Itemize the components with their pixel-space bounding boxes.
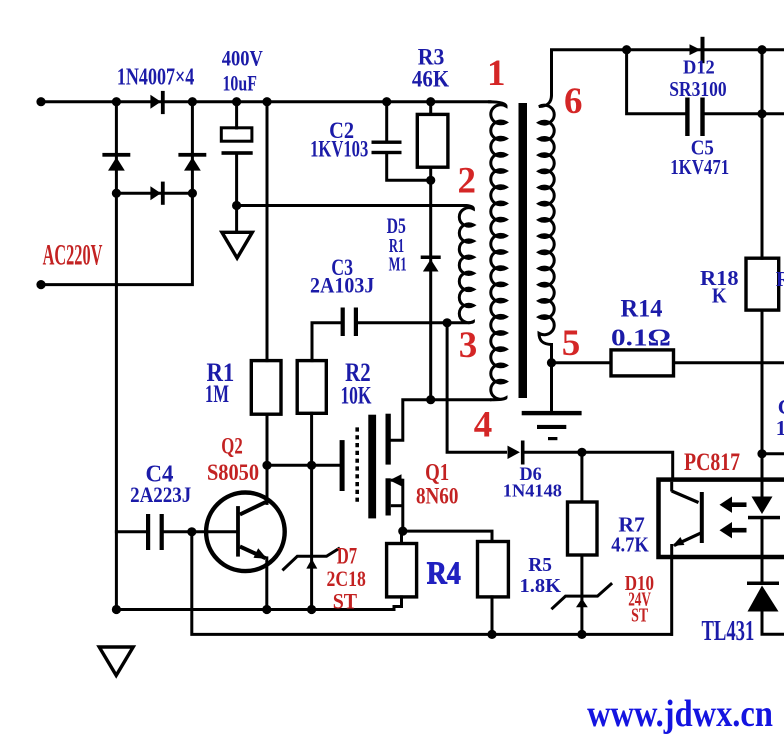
ground secondary xyxy=(522,411,582,440)
svg-text:8N60: 8N60 xyxy=(416,484,459,509)
svg-text:PC817: PC817 xyxy=(684,449,740,476)
svg-text:1K: 1K xyxy=(776,416,784,440)
wire right bridge column xyxy=(191,102,194,194)
svg-text:M1: M1 xyxy=(389,254,407,276)
wire R18 LED TL431 column xyxy=(762,50,784,635)
svg-text:ST: ST xyxy=(333,588,358,613)
optocoupler PC817 LED xyxy=(748,497,780,520)
wire C5 branch xyxy=(627,50,784,114)
wire secondary top rail xyxy=(552,50,784,95)
wire R7 branch xyxy=(580,452,583,634)
label R3 46K xyxy=(412,44,449,91)
label C2 1KV103 xyxy=(310,118,368,162)
svg-text:1.8K: 1.8K xyxy=(520,575,562,597)
label R2 10K xyxy=(340,358,371,410)
junction rail B / D10 bottom xyxy=(577,630,586,639)
svg-text:4.7K: 4.7K xyxy=(611,532,649,556)
wire ground stub under cap xyxy=(235,206,238,233)
label C4 2A223J xyxy=(130,461,191,507)
svg-text:R14: R14 xyxy=(621,296,663,323)
wire C4 and Q2 base row xyxy=(116,530,236,533)
svg-text:2: 2 xyxy=(457,161,476,202)
bridge diode left vertical (1N4007) xyxy=(102,153,130,171)
junction bridge lower row right xyxy=(188,189,197,198)
label D5 R1 M1 xyxy=(387,213,407,276)
capacitor C2 xyxy=(372,141,402,155)
svg-text:2C18: 2C18 xyxy=(327,566,366,591)
optocoupler PC817 phototransistor xyxy=(672,482,704,557)
junction top rail / right bridge column xyxy=(188,97,197,106)
wire bulk cap branch xyxy=(235,102,238,206)
capacitor bulk 400V 10uF xyxy=(221,128,252,155)
zener D10 xyxy=(551,583,612,609)
label R18 K xyxy=(700,266,739,308)
label D10 24V ST xyxy=(625,571,654,627)
bridge diode right vertical (1N4007) xyxy=(178,153,206,171)
transformer secondary winding 6-5 xyxy=(539,95,554,363)
junction C5 right node xyxy=(757,109,766,118)
shunt regulator TL431 xyxy=(747,582,779,612)
junction rail A / D7 bottom xyxy=(307,605,316,614)
svg-text:10uF: 10uF xyxy=(223,71,257,96)
resistor R7 xyxy=(568,502,598,555)
junction top rail / bulk cap xyxy=(232,97,241,106)
junction top rail / left bridge column xyxy=(112,97,121,106)
svg-text:3: 3 xyxy=(459,325,478,366)
junction D12 cathode node xyxy=(757,45,766,54)
label D6 1N4148 xyxy=(503,464,562,501)
junction R1 bottom / Q2 collector xyxy=(262,461,271,470)
svg-text:6: 6 xyxy=(564,81,583,122)
wire R1 branch xyxy=(266,102,269,466)
node 5 junction xyxy=(547,358,556,367)
label C5 1KV471 xyxy=(670,136,729,179)
label C partial right edge xyxy=(776,395,784,440)
junction AC input top terminal xyxy=(36,97,45,106)
wire LED node branch right xyxy=(762,452,784,455)
resistor R5 xyxy=(478,542,509,597)
svg-text:TL431: TL431 xyxy=(701,616,754,647)
zener D7 xyxy=(282,548,340,571)
junction D6 / R7 node xyxy=(577,448,586,457)
svg-text:K: K xyxy=(712,284,727,308)
capacitor C3 xyxy=(341,308,358,337)
svg-text:2A103J: 2A103J xyxy=(310,273,374,298)
svg-text:D7: D7 xyxy=(337,543,357,568)
diode D6 xyxy=(508,441,525,465)
diode D5 xyxy=(421,256,441,272)
optocoupler PC817 box xyxy=(659,480,784,557)
capacitor C5 xyxy=(685,98,705,137)
resistor R1 xyxy=(251,361,281,415)
bridge diode top (1N4007) xyxy=(150,91,164,114)
transformer aux winding 2-3 xyxy=(447,206,473,323)
capacitor C4 xyxy=(146,514,164,550)
optocoupler PC817 light arrows xyxy=(720,497,747,539)
label R5 1.8K xyxy=(520,554,562,597)
label R7 4.7K xyxy=(611,513,649,557)
transformer primary winding 1-4 xyxy=(488,102,506,400)
svg-text:4: 4 xyxy=(474,405,493,446)
junction D5 / primary bottom xyxy=(426,395,435,404)
junction R2 bottom / D7 top xyxy=(307,461,316,470)
junction C3 / winding 3 xyxy=(443,318,452,327)
label R1 1M xyxy=(205,358,234,408)
wire R3 snubber branch xyxy=(429,102,432,400)
wire bridge lower row xyxy=(116,192,192,195)
svg-text:AC220V: AC220V xyxy=(43,239,103,272)
junction top rail / C2 xyxy=(382,97,391,106)
svg-text:Q1: Q1 xyxy=(425,460,449,486)
junction bulk cap negative node xyxy=(232,201,241,210)
svg-text:46K: 46K xyxy=(412,67,449,92)
svg-text:400V: 400V xyxy=(222,45,263,70)
svg-text:1KV103: 1KV103 xyxy=(310,137,368,162)
bridge diode lower (1N4007) xyxy=(150,182,164,205)
label D7 2C18 ST xyxy=(327,543,366,613)
junction C4 / Q2 base xyxy=(187,527,196,536)
svg-text:D12: D12 xyxy=(683,56,715,78)
svg-text:1N4007×4: 1N4007×4 xyxy=(117,65,194,91)
diode D12 xyxy=(690,37,705,63)
wire left bridge column xyxy=(115,102,118,610)
wire node 5 and R14 row xyxy=(552,363,784,411)
junction Q1 source node xyxy=(398,527,407,536)
transistor Q2 S8050 xyxy=(206,493,285,572)
wire C3 branch xyxy=(312,323,448,466)
junction R3 C2 bottom node xyxy=(426,176,435,185)
svg-text:www.jdwx.cn: www.jdwx.cn xyxy=(587,693,773,735)
resistor R4 xyxy=(387,544,417,597)
svg-text:10K: 10K xyxy=(340,383,371,410)
junction secondary rail / C5 tap xyxy=(622,45,631,54)
svg-text:S8050: S8050 xyxy=(207,460,259,485)
svg-text:1N4148: 1N4148 xyxy=(503,481,562,501)
wire Q2 collector xyxy=(266,465,269,503)
label 400V 10uF xyxy=(222,45,263,95)
svg-text:SR3100: SR3100 xyxy=(669,77,726,101)
svg-text:5: 5 xyxy=(562,323,581,364)
svg-text:R4: R4 xyxy=(427,555,461,591)
junction rail A left xyxy=(112,605,121,614)
label C3 2A103J xyxy=(310,255,374,298)
resistor R2 xyxy=(297,361,326,414)
label D12 SR3100 xyxy=(669,56,726,101)
svg-text:2A223J: 2A223J xyxy=(130,482,191,507)
label Q1 8N60 xyxy=(416,460,459,509)
svg-text:0.1Ω: 0.1Ω xyxy=(611,325,671,351)
svg-text:Q2: Q2 xyxy=(221,434,242,459)
wire aux winding feed y205 xyxy=(237,204,466,207)
junction bridge lower row left xyxy=(112,189,121,198)
wire D7 branch xyxy=(310,465,313,609)
resistor R3 xyxy=(417,114,448,167)
wire primary bottom to drain xyxy=(391,400,490,441)
wire AC input bottom xyxy=(41,193,192,284)
mosfet Q1 8N60 xyxy=(340,414,403,519)
wire C2 branch xyxy=(387,102,431,181)
wire top rail xyxy=(41,100,490,103)
junction rail B / R5 bottom xyxy=(487,630,496,639)
junction top rail / R1 branch xyxy=(262,97,271,106)
ground bottom left xyxy=(99,647,133,675)
label Q2 S8050 xyxy=(207,434,259,485)
wire D6 feedback row xyxy=(447,323,673,480)
resistor R14 xyxy=(611,350,674,376)
svg-text:1KV471: 1KV471 xyxy=(670,155,729,179)
label R14 0.1ohm xyxy=(611,296,671,352)
junction rail A / Q2 emitter xyxy=(262,605,271,614)
junction LED anode node xyxy=(757,449,766,458)
svg-text:1M: 1M xyxy=(205,381,229,408)
ground under bulk cap xyxy=(222,232,252,258)
resistor R18 xyxy=(746,258,779,310)
wire PC817 emitter drop xyxy=(670,559,673,635)
svg-text:ST: ST xyxy=(631,605,648,627)
wire rail B feedback xyxy=(192,532,672,635)
svg-text:R5: R5 xyxy=(528,554,552,576)
wire Q1 source node xyxy=(402,480,493,634)
svg-text:R1: R1 xyxy=(776,267,784,291)
transformer core xyxy=(519,103,528,398)
wire gate row xyxy=(267,464,340,467)
svg-text:1: 1 xyxy=(487,53,506,94)
junction top rail / R3 xyxy=(426,97,435,106)
wire Q2 emitter xyxy=(265,558,268,610)
wire rail A source return xyxy=(116,597,401,610)
junction AC input bottom terminal xyxy=(36,280,45,289)
